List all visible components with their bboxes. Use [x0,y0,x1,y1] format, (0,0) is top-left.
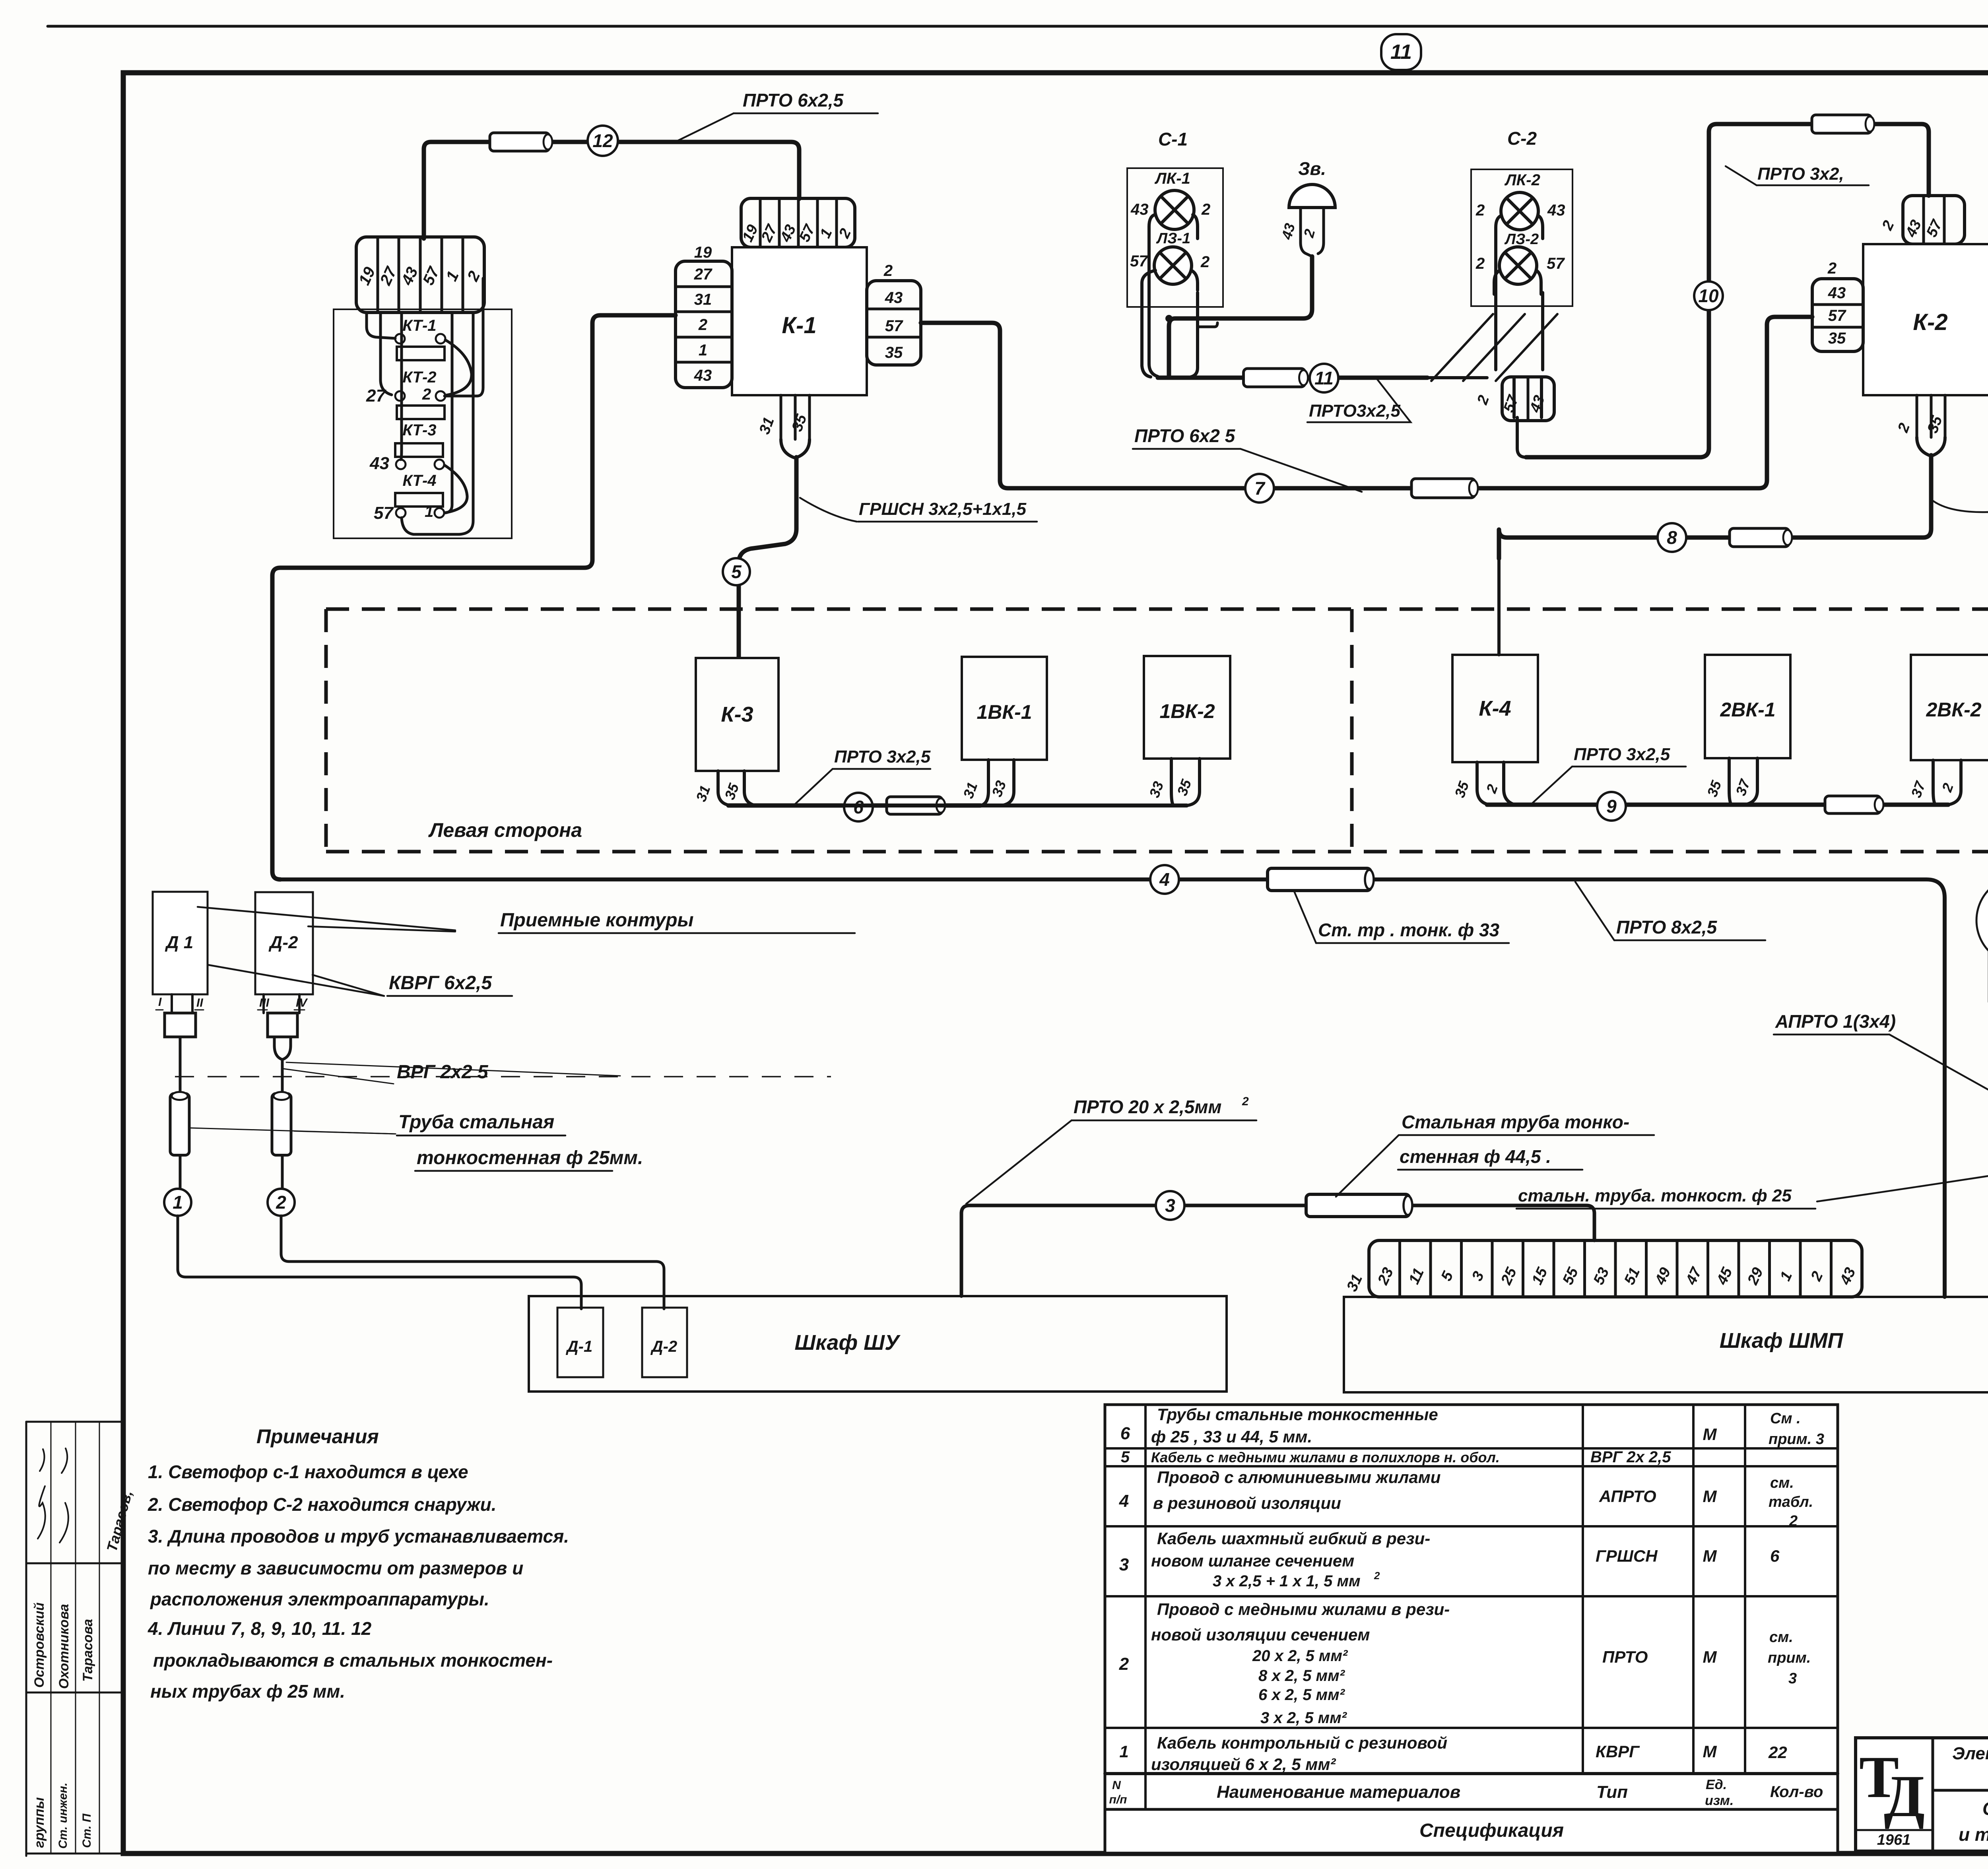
svg-text:I: I [158,996,162,1009]
svg-text:Д 1: Д 1 [165,933,193,952]
svg-text:Наименование материалов: Наименование материалов [1217,1782,1460,1802]
big pipe on line3 [1306,1194,1412,1217]
C-1 box [1127,168,1223,307]
svg-text:изм.: изм. [1705,1793,1734,1808]
svg-text:КТ-2: КТ-2 [402,369,436,386]
svg-text:Спецификация: Спецификация [1419,1820,1564,1841]
svg-text:N: N [1112,1779,1121,1792]
svg-text:Д: Д [1884,1763,1925,1829]
pipe on line9 [1825,796,1883,813]
svg-text:1ВК-2: 1ВК-2 [1159,700,1215,722]
svg-text:см.: см. [1770,1475,1794,1491]
svg-text:43: 43 [1130,201,1149,218]
2VK-1 box [1705,655,1790,758]
pipe on line11 [1244,369,1308,387]
svg-text:см.: см. [1769,1629,1793,1646]
svg-text:Приемные контуры: Приемные контуры [500,910,694,931]
svg-text:Кабель контрольный с: Кабель контрольный с резиновой [1157,1733,1447,1752]
K-1 bottom cells 31 35 [781,395,810,439]
svg-text:Тип: Тип [1596,1782,1628,1802]
circle 5 [723,558,750,585]
svg-text:57: 57 [1547,255,1565,272]
svg-text:ГРШСН 3х2,5+1х1,5: ГРШСН 3х2,5+1х1,5 [859,499,1027,519]
svg-text:11: 11 [1390,41,1412,64]
K-2 left cells [1812,279,1863,351]
svg-text:57: 57 [1828,307,1846,324]
svg-text:Электрическая часть ра: Электрическая часть распашных ворот [1952,1744,1988,1763]
svg-text:3 х 2, 5 мм²: 3 х 2, 5 мм² [1260,1709,1347,1727]
1VK-2 funnels [1171,759,1200,805]
svg-text:Островский: Островский [32,1602,47,1688]
lamp LZ-1 [1154,247,1192,284]
K-4 box [1452,655,1538,762]
1VK-1 funnels [728,804,1187,807]
svg-text:1961: 1961 [1877,1832,1911,1848]
circle 3 [1156,1191,1184,1220]
svg-text:3 х 2,5 + 1 х 1, 5 мм: 3 х 2,5 + 1 х 1, 5 мм [1213,1572,1361,1590]
svg-text:2. Светофор С-2 наход: 2. Светофор С-2 находится снаружи. [148,1494,497,1515]
svg-text:Д-2: Д-2 [268,933,298,952]
wire line12 from KT block to K-1 [424,142,799,239]
svg-text:АПРТО: АПРТО [1599,1487,1656,1506]
svg-text:и трубных соединений .: и трубных соединений . [1959,1824,1988,1845]
svg-text:новом шланге сечением: новом шланге сечением [1151,1551,1354,1570]
circle 11 [1310,364,1338,392]
svg-text:Левая сторона: Левая сторона [428,819,582,841]
ShMP terminal strip [1369,1240,1862,1297]
svg-text:К-3: К-3 [721,703,753,726]
K-3 bottom funnels [718,771,755,805]
svg-text:2ВК-2: 2ВК-2 [1926,699,1981,721]
circle 9 [1597,792,1626,821]
svg-text:Тарасова: Тарасова [80,1619,95,1682]
svg-text:ЛК-2: ЛК-2 [1504,171,1540,189]
motor 1Д [1976,876,1988,965]
svg-text:2: 2 [698,316,707,334]
svg-text:К-4: К-4 [1479,697,1511,720]
D-2 funnel [274,1037,291,1060]
svg-text:Кабель с медными жилами в по: Кабель с медными жилами в полихлорв н. о… [1151,1449,1500,1465]
svg-text:43: 43 [694,367,712,384]
svg-text:35: 35 [1828,330,1846,347]
svg-text:Провод с медными жилам: Провод с медными жилами в рези- [1157,1600,1450,1619]
svg-text:ГРШСН: ГРШСН [1596,1547,1658,1565]
svg-text:группы: группы [32,1797,47,1848]
svg-text:Шкаф ШУ: Шкаф ШУ [794,1331,901,1355]
svg-text:2: 2 [883,262,893,279]
svg-text:Охотникова: Охотникова [56,1604,72,1689]
K-1 box [732,247,867,395]
svg-text:2: 2 [1827,260,1837,277]
svg-text:19: 19 [694,244,712,261]
KT internal wires [367,312,395,338]
svg-text:10: 10 [1698,285,1719,306]
svg-text:43: 43 [1547,202,1565,219]
K-4 top wire to line8 [1497,560,1501,655]
svg-text:в резиновой изоляции: в резиновой изоляции [1153,1494,1341,1512]
circle 2 [268,1189,295,1216]
1VK-2 box [1144,656,1230,759]
svg-text:новой изоляции сечен: новой изоляции сечением [1151,1625,1370,1644]
K-1 left cells [676,261,732,388]
line number circle 12 [588,126,618,156]
svg-text:по месту в зависимо: по месту в зависимости от размеров и [148,1558,523,1578]
svg-text:Кол-во: Кол-во [1770,1783,1823,1801]
wire line11 horizontal [1158,376,1427,380]
svg-text:2: 2 [1475,255,1485,272]
svg-text:43: 43 [369,454,389,473]
svg-text:ПРТО 8х2,5: ПРТО 8х2,5 [1616,917,1718,937]
K-1 top cells [741,198,855,247]
lamp LZ-2 [1499,247,1537,284]
svg-text:2: 2 [1201,201,1210,218]
svg-text:IV: IV [296,996,308,1009]
specification table frame [1105,1405,1838,1853]
svg-text:ЛК-1: ЛК-1 [1154,170,1190,187]
pipe on line7 [1411,479,1478,498]
svg-text:КВРГ: КВРГ [1596,1742,1640,1761]
svg-text:3: 3 [1165,1195,1175,1216]
svg-text:2: 2 [1200,253,1209,271]
svg-text:43: 43 [885,289,903,307]
svg-text:1: 1 [1119,1742,1128,1761]
svg-text:Ст. тр . тонк. ф 33: Ст. тр . тонк. ф 33 [1318,920,1500,940]
K-1 right cells [867,281,921,365]
svg-text:27: 27 [694,266,712,283]
wire line4 bus [280,879,1945,1297]
svg-text:прим.: прим. [1768,1650,1811,1666]
svg-text:М: М [1703,1487,1717,1506]
svg-text:расположения электроаппара: расположения электроаппаратуры. [149,1589,489,1609]
2VK-2 box [1911,655,1988,760]
svg-text:прокладываются в стальн: прокладываются в стальных тонкостен- [153,1650,553,1671]
pipe on line8 [1730,528,1792,547]
svg-text:тонкостенная ф 25мм.: тонкостенная ф 25мм. [417,1147,643,1168]
2VK-1 funnels [1729,758,1757,805]
svg-text:КВРГ 6х2,5: КВРГ 6х2,5 [389,972,492,994]
C-1 wires to line 11 [1149,215,1158,377]
svg-text:2: 2 [1789,1513,1798,1529]
svg-text:6: 6 [1120,1424,1130,1443]
circle 6 [844,793,873,821]
svg-text:Примечания: Примечания [256,1425,379,1448]
K-2 bottom cells 2 35 [1917,395,1945,437]
svg-text:8: 8 [1667,527,1677,548]
svg-text:АПРТО 1(3х4): АПРТО 1(3х4) [1775,1011,1896,1032]
2VK-2 funnels [1933,760,1961,805]
svg-text:12: 12 [592,130,613,151]
wire line7 [921,317,1812,488]
C-2 box [1471,169,1573,306]
pipe on line6 [887,797,945,814]
svg-text:ПРТО3х2,5: ПРТО3х2,5 [1309,401,1400,421]
svg-text:ВРГ 2х 2,5: ВРГ 2х 2,5 [1590,1448,1671,1466]
svg-text:ПРТО 3х2,5: ПРТО 3х2,5 [834,747,931,767]
svg-text:М: М [1703,1648,1717,1666]
svg-text:См .: См . [1770,1410,1801,1427]
svg-text:Д-2: Д-2 [650,1338,677,1355]
K-2 box [1863,244,1988,395]
wire line5 down to K-3 [739,457,796,657]
svg-text:ПРТО: ПРТО [1602,1648,1648,1666]
KT outer box [334,309,512,538]
svg-text:57: 57 [1130,252,1148,270]
svg-text:табл.: табл. [1769,1494,1813,1510]
svg-text:Стальная труба тонко-: Стальная труба тонко- [1402,1112,1629,1132]
svg-text:4: 4 [1159,869,1170,890]
svg-text:прим. 3: прим. 3 [1769,1431,1824,1448]
svg-text:Труба стальная: Труба стальная [398,1112,554,1133]
svg-text:С-2: С-2 [1507,128,1537,149]
C-2 wires [1496,215,1501,370]
lamp LK-2 [1501,192,1538,230]
pipe on wire2 [272,1092,291,1155]
svg-text:2: 2 [1374,1570,1380,1582]
svg-text:1: 1 [425,503,433,520]
dashed enclosure [326,609,1988,852]
wire K-1 left loop [272,315,676,879]
svg-text:20 х 2, 5 мм²: 20 х 2, 5 мм² [1252,1647,1348,1665]
svg-text:М: М [1703,1547,1717,1565]
D-2 inner box [642,1308,687,1377]
svg-text:9: 9 [1606,796,1617,817]
stamp column grid [26,1422,123,1854]
svg-text:2: 2 [1119,1654,1129,1674]
svg-text:п/п: п/п [1109,1793,1127,1806]
circle 8 [1658,523,1686,552]
svg-text:Трубы стальные тонкост: Трубы стальные тонкостенные [1157,1405,1438,1424]
sheet outer edge top [48,25,1988,28]
D1 terminals I II [172,994,192,1013]
svg-text:35: 35 [885,344,903,361]
svg-text:ф 25 , 33 и 44, 5 мм.: ф 25 , 33 и 44, 5 мм. [1151,1427,1312,1446]
svg-text:М: М [1703,1742,1717,1761]
svg-text:4: 4 [1119,1491,1129,1511]
svg-text:11: 11 [1314,368,1334,388]
svg-text:57: 57 [885,317,903,335]
bell wire down [1169,256,1312,375]
svg-text:ных трубах ф 25 мм.: ных трубах ф 25 мм. [150,1681,345,1702]
svg-text:С-1: С-1 [1158,129,1188,149]
wire line3 ShU to ShMP [961,1205,1594,1296]
svg-text:Ед.: Ед. [1706,1777,1727,1792]
svg-text:ПРТО 6х2 5: ПРТО 6х2 5 [1134,425,1236,446]
svg-text:1: 1 [699,342,707,359]
svg-text:ПРТО 20 х 2,5мм: ПРТО 20 х 2,5мм [1074,1097,1221,1117]
svg-text:2: 2 [276,1192,286,1213]
svg-text:3: 3 [1119,1555,1129,1574]
svg-text:К-2: К-2 [1913,309,1947,335]
wires down into ShU [178,1216,581,1309]
svg-text:2: 2 [1242,1095,1249,1108]
wire line8 from K-4 to K-2 [1499,455,1931,559]
svg-text:ВРГ 2х2 5: ВРГ 2х2 5 [397,1062,489,1083]
svg-text:М: М [1703,1425,1717,1444]
svg-text:4. Линии 7, 8, 9, 10, 11.: 4. Линии 7, 8, 9, 10, 11. 12 [148,1618,372,1639]
svg-text:ПРТО 3х2,: ПРТО 3х2, [1757,164,1844,184]
D-1 inner box [557,1308,603,1377]
ShMP cabinet box [1344,1297,1988,1392]
lamp LK-1 [1155,190,1194,229]
ShU cabinet box [529,1296,1227,1392]
svg-text:31: 31 [694,291,712,309]
KT cells group [356,237,484,312]
svg-text:43: 43 [1828,284,1846,302]
circle 10 [1694,281,1723,310]
D-2 terminals III IV [264,994,299,1013]
svg-text:Кабель шахтный гибкий: Кабель шахтный гибкий в рези- [1157,1529,1430,1548]
svg-text:57: 57 [374,503,394,523]
wire line9 horizontal [1487,803,1948,807]
circle 1 [164,1189,191,1216]
svg-text:КТ-1: КТ-1 [402,317,436,334]
title block frame [1856,1738,1988,1851]
svg-text:1ВК-1: 1ВК-1 [977,701,1032,723]
1VK-1 box [962,657,1047,760]
C-2 bundle cells below [1502,377,1554,421]
K-2 bottom funnel [1917,437,1945,456]
svg-text:Схема внешних кабельных: Схема внешних кабельных [1982,1798,1988,1819]
hatch marks cable group [1427,376,1487,379]
svg-text:Д-1: Д-1 [566,1338,592,1355]
K-2 top cells [1903,196,1965,244]
wire line6 horizontal [728,804,980,808]
svg-text:ЛЗ-1: ЛЗ-1 [1156,230,1190,247]
svg-text:6 х 2, 5 мм²: 6 х 2, 5 мм² [1258,1686,1345,1704]
K-1 bottom funnel to line 5 [781,439,810,458]
svg-text:Шкаф ШМП: Шкаф ШМП [1720,1329,1844,1353]
svg-text:2ВК-1: 2ВК-1 [1720,699,1775,721]
svg-text:1. Светофор с-1 нах: 1. Светофор с-1 находится в цехе [148,1461,468,1482]
svg-text:стальн. труба. тонкост. ф 25: стальн. труба. тонкост. ф 25 [1518,1186,1792,1205]
svg-text:КТ-4: КТ-4 [402,472,436,489]
pipe on line12 [490,133,552,151]
svg-text:стенная ф 44,5 .: стенная ф 44,5 . [1400,1146,1551,1167]
svg-text:Ст. инжен.: Ст. инжен. [56,1783,70,1849]
svg-text:Провод с алюминиевыми жи: Провод с алюминиевыми жилами [1157,1468,1441,1487]
circle 7 [1245,474,1274,503]
wire from D1 down [179,1037,182,1189]
svg-text:6: 6 [1770,1547,1780,1565]
svg-text:ПРТО 3х2,5: ПРТО 3х2,5 [1574,745,1670,764]
svg-text:2: 2 [1475,202,1485,219]
D 1 pole box [153,892,208,994]
sheet outer edge left (stamp region) [25,1422,27,1856]
svg-text:Зв.: Зв. [1298,158,1326,179]
svg-text:Ст. П: Ст. П [80,1813,93,1848]
svg-text:изоляцией 6 х 2, 5 мм²: изоляцией 6 х 2, 5 мм² [1151,1755,1336,1774]
svg-text:7: 7 [1254,478,1266,499]
svg-text:III: III [259,996,270,1009]
svg-text:8 х 2, 5 мм²: 8 х 2, 5 мм² [1258,1667,1345,1685]
svg-text:К-1: К-1 [782,312,816,338]
svg-text:ЛЗ-2: ЛЗ-2 [1504,231,1539,248]
pipe on line10 top [1812,115,1874,133]
pipe on wire1 [170,1092,189,1155]
K-3 box [696,658,779,771]
svg-text:II: II [196,996,203,1009]
wire line10 [1526,124,1929,457]
svg-text:1: 1 [173,1192,183,1213]
svg-text:5: 5 [731,561,742,582]
circle 4 [1150,865,1179,894]
svg-text:22: 22 [1768,1743,1787,1762]
sheet number badge 11 [1381,34,1421,70]
K-4 bottom funnels [1477,762,1515,805]
svg-text:КТ-3: КТ-3 [402,421,436,439]
svg-text:3: 3 [1788,1670,1797,1687]
svg-text:5: 5 [1121,1448,1130,1466]
svg-text:3. Длина проводов и: 3. Длина проводов и труб устанавливается… [148,1526,569,1547]
dashed partition [1350,609,1354,852]
D-2 pole box [255,892,313,994]
svg-text:2: 2 [422,386,431,403]
big pipe on line4 [1268,868,1374,891]
svg-text:ПРТО 6х2,5: ПРТО 6х2,5 [743,90,844,111]
